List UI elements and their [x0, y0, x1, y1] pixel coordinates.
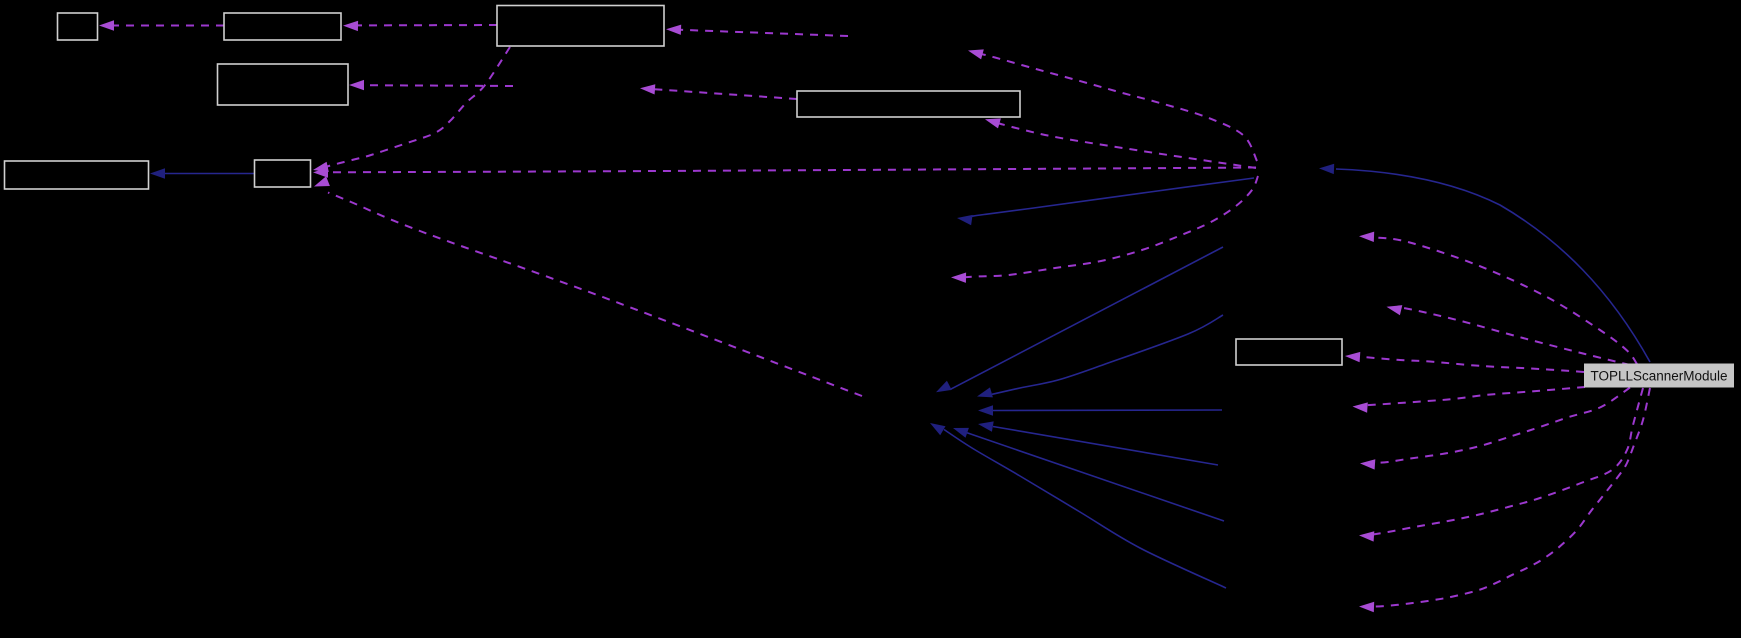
wire edge G to F solid blue [150, 168, 254, 178]
node box B [224, 13, 341, 40]
wire edge X to Nc dashed curve [951, 176, 1258, 283]
wire edge E to N2 dashed [640, 84, 797, 99]
wire edge TOPLL to R5 dashed curve [1360, 388, 1630, 470]
wire edge TOPLL to X solid blue curve [1319, 164, 1650, 362]
wire edge TOPLL to R4 dashed curve [1353, 387, 1586, 413]
node box A [58, 13, 98, 40]
wire edge Ng to Y solid blue [977, 315, 1223, 397]
wire edge TOPLL to R7 dashed curve [1359, 388, 1650, 612]
wire edge TOPLL to R1 dashed curve [1359, 232, 1637, 364]
node box H [1236, 339, 1342, 365]
wire edge TOPLL to R6 dashed curve [1359, 388, 1643, 542]
wire edge TOPLL to R2 dashed curve [1387, 305, 1631, 365]
wire edge X to Nb solid blue [957, 178, 1254, 225]
wire edge D to G dashed curve [313, 47, 510, 172]
node box C [218, 64, 349, 105]
node box F [5, 161, 149, 189]
svg-text:TOPLLScannerModule: TOPLLScannerModule [1590, 369, 1727, 384]
wire edge Na to D dashed [666, 25, 848, 36]
wire edge X to E dashed curve [985, 118, 1256, 168]
node TOPLLScannerModule current node [1584, 364, 1734, 388]
wire edge N2 to C dashed [349, 80, 513, 90]
wire edge Nh to Y solid blue [978, 405, 1222, 415]
wire edge Ni to Y solid blue [978, 421, 1218, 465]
wire edge Y to G long dashed diagonal [314, 176, 862, 396]
wire edge Nf to Y solid blue [936, 247, 1223, 392]
wire edge X to G long dashed [313, 167, 1256, 177]
node box E [797, 91, 1020, 117]
wire edge Nj to Y solid blue [953, 428, 1224, 521]
wire edge TOPLL to H dashed curve [1345, 352, 1584, 372]
wire edge D to B dashed [343, 21, 497, 31]
wire edge B to A dashed [99, 20, 224, 30]
node box D [497, 6, 664, 47]
wire edge Nk to Y solid blue [930, 423, 1226, 588]
wire edge X to Na dashed curve [968, 49, 1257, 161]
node box G [255, 160, 311, 187]
